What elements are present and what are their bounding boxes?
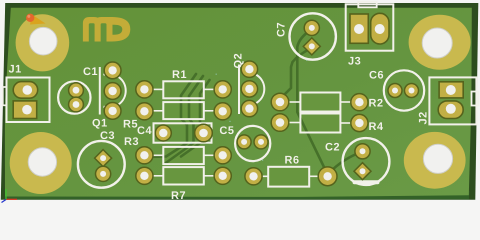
origin marker (orange ball with gold cone) xyxy=(26,14,46,25)
transistor Q2 xyxy=(234,54,264,117)
MD logo xyxy=(83,17,130,42)
connector J2 xyxy=(419,77,479,124)
resistor R4 xyxy=(271,114,383,133)
wire C7 pad1 to R6 pad xyxy=(297,31,327,175)
resistor R4 body fill xyxy=(300,114,340,133)
board bottom side wall (lit) xyxy=(5,191,469,199)
wire traces group xyxy=(148,31,363,175)
resistor R3 xyxy=(125,137,232,164)
resistor R7 xyxy=(136,167,232,199)
wire R6 pad to C2 pad xyxy=(329,152,363,174)
resistor R2 xyxy=(271,93,382,112)
connector J3 xyxy=(346,2,394,65)
mounting hole top-right xyxy=(409,15,471,70)
mounting hole bottom-left xyxy=(10,132,72,194)
capacitor C7 xyxy=(277,13,336,59)
resistor R3 body fill xyxy=(163,147,204,164)
axis marker origin xyxy=(2,189,18,203)
resistor R7 body fill xyxy=(163,167,204,184)
board surface xyxy=(5,8,472,197)
resistor R5 xyxy=(124,102,232,128)
mounting hole top-left xyxy=(16,14,70,71)
capacitor C2 xyxy=(325,138,389,185)
transistor Q1 xyxy=(92,62,125,129)
resistor R6 xyxy=(245,156,337,187)
capacitor C4 xyxy=(137,123,212,142)
capacitor C6 xyxy=(369,70,424,110)
resistor R2 body fill xyxy=(300,93,340,112)
wire C7 pad2 to R2 pad xyxy=(280,49,311,100)
connector J1 xyxy=(3,65,50,122)
wire diag 3 xyxy=(181,80,210,157)
resistor R1 xyxy=(136,70,232,98)
resistor body interior fills xyxy=(163,81,340,186)
mounting hole bottom-right xyxy=(404,132,466,189)
capacitor C5 xyxy=(220,126,270,161)
wire diag 1 xyxy=(148,74,197,157)
resistor R6 body fill xyxy=(268,167,309,187)
capacitor C1 xyxy=(58,67,97,113)
capacitor C3 xyxy=(78,131,125,187)
resistor R1 body fill xyxy=(163,81,204,98)
dust specks xyxy=(191,60,308,161)
wire diag 2 xyxy=(165,76,203,164)
resistor R5 body fill xyxy=(163,102,204,119)
